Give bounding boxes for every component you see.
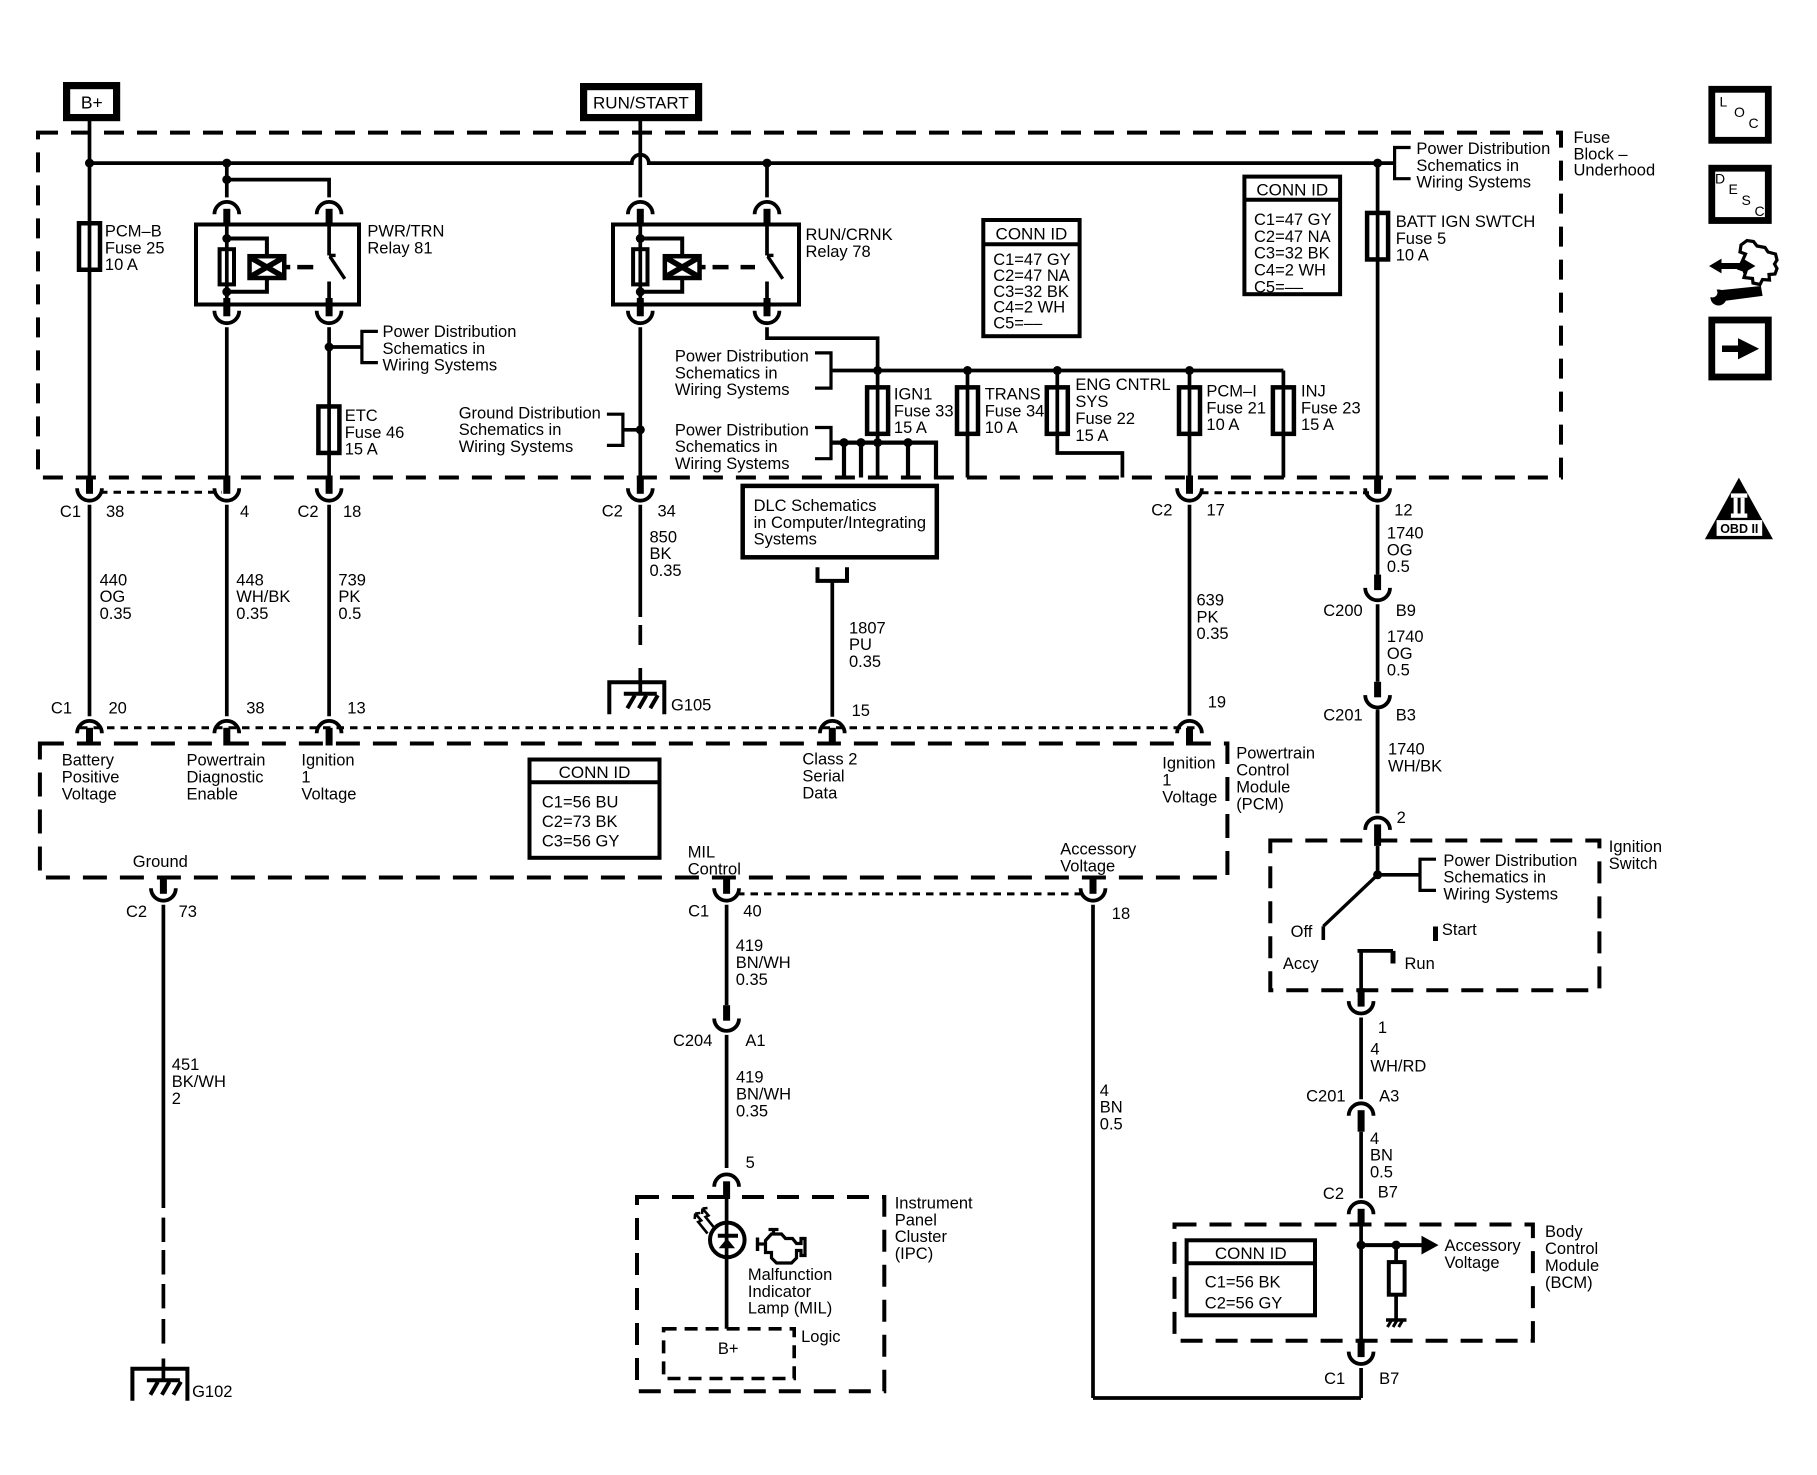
svg-text:Logic: Logic [801,1328,840,1346]
svg-text:0.5: 0.5 [1100,1115,1123,1133]
svg-text:B9: B9 [1396,602,1416,620]
svg-text:Ignition: Ignition [301,751,354,769]
svg-text:C2=56 GY: C2=56 GY [1205,1295,1283,1313]
svg-text:Underhood: Underhood [1574,162,1656,180]
svg-text:451: 451 [172,1056,200,1074]
svg-text:BN/WH: BN/WH [736,954,791,972]
svg-text:C204: C204 [673,1032,712,1050]
svg-text:Voltage: Voltage [1162,789,1217,807]
svg-text:BN/WH: BN/WH [736,1086,791,1104]
svg-text:1: 1 [301,768,310,786]
svg-text:Voltage: Voltage [1445,1254,1500,1272]
svg-text:CONN ID: CONN ID [996,225,1068,244]
svg-text:739: 739 [338,571,366,589]
svg-text:Control: Control [1545,1240,1598,1258]
svg-text:L: L [1720,94,1728,110]
svg-text:Run: Run [1405,955,1435,973]
svg-text:15 A: 15 A [894,419,927,437]
svg-text:34: 34 [658,503,676,521]
svg-text:Body: Body [1545,1223,1583,1241]
svg-text:OG: OG [1387,645,1413,663]
svg-text:C2: C2 [602,503,623,521]
svg-text:ETC: ETC [345,407,378,425]
svg-text:C4=2 WH: C4=2 WH [1254,262,1326,280]
svg-text:Relay 81: Relay 81 [367,239,432,257]
svg-text:Voltage: Voltage [62,785,117,803]
svg-text:C: C [1749,115,1759,131]
svg-text:Wiring Systems: Wiring Systems [675,455,790,473]
svg-text:Ignition: Ignition [1609,838,1662,856]
svg-text:15 A: 15 A [345,441,378,459]
svg-text:19: 19 [1208,694,1226,712]
svg-text:Data: Data [802,785,838,803]
svg-text:1: 1 [1162,772,1171,790]
svg-text:4: 4 [240,503,249,521]
svg-text:O: O [1734,104,1745,120]
svg-text:DLC Schematics: DLC Schematics [754,497,877,515]
svg-text:B7: B7 [1379,1370,1399,1388]
svg-text:C1: C1 [688,903,709,921]
svg-text:PK: PK [1197,608,1219,626]
svg-text:0.5: 0.5 [1370,1163,1393,1181]
svg-text:C: C [1755,203,1765,219]
svg-text:15 A: 15 A [1301,416,1334,434]
svg-text:TRANS: TRANS [985,386,1041,404]
svg-text:18: 18 [343,503,361,521]
svg-text:C1: C1 [60,503,81,521]
svg-text:38: 38 [246,700,264,718]
svg-text:C2=47 NA: C2=47 NA [1254,228,1331,246]
svg-text:C2: C2 [298,503,319,521]
svg-text:Fuse 34: Fuse 34 [985,402,1045,420]
svg-text:Instrument: Instrument [895,1195,973,1213]
svg-text:C2: C2 [1151,502,1172,520]
svg-text:2: 2 [1397,809,1406,827]
svg-text:Powertrain: Powertrain [1236,745,1315,763]
svg-text:1807: 1807 [849,619,886,637]
svg-text:B7: B7 [1378,1184,1398,1202]
svg-text:BN: BN [1100,1099,1123,1117]
svg-text:Relay 78: Relay 78 [806,243,871,261]
svg-text:Schematics in: Schematics in [675,364,778,382]
svg-text:Schematics in: Schematics in [1416,157,1519,175]
svg-text:PK: PK [338,588,360,606]
svg-text:Ground: Ground [133,853,188,871]
svg-text:C3=56 GY: C3=56 GY [542,833,620,851]
svg-text:40: 40 [743,903,761,921]
svg-text:INJ: INJ [1301,383,1326,401]
svg-text:BK/WH: BK/WH [172,1073,226,1091]
svg-text:C1=56 BK: C1=56 BK [1205,1274,1281,1292]
svg-text:OG: OG [100,588,126,606]
svg-text:(PCM): (PCM) [1236,796,1284,814]
svg-text:12: 12 [1394,502,1412,520]
svg-text:Wiring Systems: Wiring Systems [459,438,574,456]
svg-text:A1: A1 [745,1032,765,1050]
svg-text:C2=73 BK: C2=73 BK [542,813,618,831]
svg-text:850: 850 [650,528,678,546]
svg-text:IGN1: IGN1 [894,386,933,404]
svg-text:Power Distribution: Power Distribution [383,323,517,341]
svg-text:C2: C2 [1323,1185,1344,1203]
svg-text:0.35: 0.35 [650,562,682,580]
svg-text:Cluster: Cluster [895,1228,948,1246]
svg-text:C200: C200 [1323,602,1362,620]
svg-text:S: S [1742,192,1751,208]
svg-text:Control: Control [1236,762,1289,780]
svg-text:Off: Off [1291,923,1313,941]
svg-text:15 A: 15 A [1075,427,1108,445]
svg-text:Power Distribution: Power Distribution [675,348,809,366]
svg-text:73: 73 [179,903,197,921]
svg-text:BN: BN [1370,1147,1393,1165]
svg-text:10 A: 10 A [105,256,138,274]
svg-text:Fuse 33: Fuse 33 [894,402,954,420]
svg-text:Module: Module [1545,1257,1599,1275]
svg-text:Fuse 23: Fuse 23 [1301,399,1361,417]
svg-text:Schematics in: Schematics in [459,421,562,439]
svg-text:Voltage: Voltage [301,785,356,803]
svg-text:Wiring Systems: Wiring Systems [1443,885,1558,903]
svg-text:Malfunction: Malfunction [748,1266,832,1284]
svg-text:5: 5 [746,1154,755,1172]
svg-text:10 A: 10 A [1396,247,1429,265]
svg-text:ENG CNTRL: ENG CNTRL [1075,376,1170,394]
svg-text:Enable: Enable [187,785,238,803]
svg-text:Switch: Switch [1609,855,1658,873]
svg-text:Block –: Block – [1574,145,1629,163]
svg-text:Battery: Battery [62,751,115,769]
svg-text:E: E [1729,181,1738,197]
svg-text:639: 639 [1197,592,1225,610]
svg-text:B+: B+ [718,1340,739,1358]
svg-text:4: 4 [1370,1130,1379,1148]
svg-text:0.35: 0.35 [236,605,268,623]
svg-text:OG: OG [1387,541,1413,559]
svg-text:B+: B+ [81,92,103,112]
svg-text:Power Distribution: Power Distribution [1416,140,1550,158]
svg-text:Ignition: Ignition [1162,755,1215,773]
svg-text:CONN ID: CONN ID [1215,1244,1287,1263]
svg-text:Serial: Serial [802,768,844,786]
svg-text:WH/BK: WH/BK [1388,757,1442,775]
svg-text:Power Distribution: Power Distribution [675,421,809,439]
svg-text:C1: C1 [51,700,72,718]
svg-text:OBD II: OBD II [1720,522,1758,536]
svg-text:SYS: SYS [1075,393,1108,411]
svg-text:Voltage: Voltage [1060,857,1115,875]
svg-text:C201: C201 [1306,1088,1345,1106]
svg-text:440: 440 [100,571,128,589]
svg-text:1740: 1740 [1388,741,1425,759]
svg-text:(IPC): (IPC) [895,1245,934,1263]
svg-text:Powertrain: Powertrain [187,751,266,769]
svg-text:G105: G105 [671,697,711,715]
svg-text:0.35: 0.35 [736,1103,768,1121]
svg-text:Systems: Systems [754,531,817,549]
svg-text:Positive: Positive [62,768,120,786]
svg-text:Wiring Systems: Wiring Systems [1416,174,1531,192]
svg-text:17: 17 [1207,502,1225,520]
svg-text:Accessory: Accessory [1445,1237,1522,1255]
svg-text:13: 13 [347,700,365,718]
svg-text:B3: B3 [1396,707,1416,725]
svg-text:0.5: 0.5 [338,605,361,623]
svg-text:RUN/CRNK: RUN/CRNK [806,226,893,244]
svg-text:Fuse: Fuse [1574,129,1611,147]
svg-text:Fuse 46: Fuse 46 [345,424,405,442]
svg-text:Class 2: Class 2 [802,751,857,769]
svg-text:C2: C2 [126,903,147,921]
svg-text:Indicator: Indicator [748,1283,812,1301]
svg-text:Ground Distribution: Ground Distribution [459,404,601,422]
svg-text:1740: 1740 [1387,628,1424,646]
svg-text:1: 1 [1378,1019,1387,1037]
svg-text:D: D [1715,171,1725,187]
svg-text:BK: BK [650,545,672,563]
svg-text:Schematics in: Schematics in [383,340,486,358]
svg-text:in Computer/Integrating: in Computer/Integrating [754,514,926,532]
svg-text:0.35: 0.35 [849,653,881,671]
svg-text:Control: Control [688,861,741,879]
svg-text:0.35: 0.35 [100,605,132,623]
svg-text:Wiring Systems: Wiring Systems [383,357,498,375]
svg-text:C1=47 GY: C1=47 GY [1254,211,1332,229]
svg-text:15: 15 [852,702,870,720]
svg-text:G102: G102 [192,1383,232,1401]
svg-text:Schematics in: Schematics in [1443,869,1546,887]
svg-text:10 A: 10 A [1206,416,1239,434]
svg-text:BATT IGN SWTCH: BATT IGN SWTCH [1396,213,1536,231]
svg-text:4: 4 [1370,1041,1379,1059]
svg-text:C1=56 BU: C1=56 BU [542,794,619,812]
svg-text:Schematics in: Schematics in [675,438,778,456]
svg-text:PCM–B: PCM–B [105,223,162,241]
svg-text:C201: C201 [1323,707,1362,725]
svg-text:419: 419 [736,937,764,955]
svg-text:20: 20 [109,700,127,718]
svg-text:Fuse 21: Fuse 21 [1206,399,1266,417]
svg-text:1740: 1740 [1387,525,1424,543]
svg-text:Fuse 22: Fuse 22 [1075,410,1135,428]
svg-text:C5=––: C5=–– [993,315,1043,333]
svg-text:2: 2 [172,1090,181,1108]
svg-text:Lamp (MIL): Lamp (MIL) [748,1300,832,1318]
svg-text:4: 4 [1100,1082,1109,1100]
svg-text:0.35: 0.35 [1197,625,1229,643]
svg-text:C1: C1 [1324,1370,1345,1388]
svg-text:Start: Start [1442,921,1477,939]
svg-text:419: 419 [736,1069,764,1087]
svg-text:0.35: 0.35 [736,971,768,989]
svg-text:C5=––: C5=–– [1254,278,1304,296]
svg-text:PU: PU [849,636,872,654]
svg-text:WH/RD: WH/RD [1370,1057,1426,1075]
svg-text:Fuse 25: Fuse 25 [105,239,165,257]
svg-text:MIL: MIL [688,844,716,862]
svg-text:WH/BK: WH/BK [236,588,290,606]
svg-text:448: 448 [236,571,264,589]
svg-text:18: 18 [1112,905,1130,923]
svg-text:A3: A3 [1379,1088,1399,1106]
svg-text:10 A: 10 A [985,419,1018,437]
svg-text:Fuse 5: Fuse 5 [1396,230,1446,248]
svg-text:PWR/TRN: PWR/TRN [367,223,444,241]
svg-text:Wiring Systems: Wiring Systems [675,381,790,399]
svg-text:Accessory: Accessory [1060,841,1137,859]
svg-text:C3=32 BK: C3=32 BK [1254,245,1330,263]
svg-text:PCM–I: PCM–I [1206,383,1256,401]
svg-text:Power Distribution: Power Distribution [1443,852,1577,870]
svg-text:0.5: 0.5 [1387,662,1410,680]
svg-text:CONN ID: CONN ID [559,763,631,782]
svg-text:Panel: Panel [895,1211,937,1229]
svg-text:Accy: Accy [1283,955,1320,973]
svg-text:Module: Module [1236,779,1290,797]
svg-text:0.5: 0.5 [1387,558,1410,576]
svg-text:CONN ID: CONN ID [1256,180,1328,199]
svg-text:38: 38 [106,503,124,521]
svg-text:(BCM): (BCM) [1545,1274,1593,1292]
svg-text:Diagnostic: Diagnostic [187,768,264,786]
svg-text:RUN/START: RUN/START [593,93,689,112]
